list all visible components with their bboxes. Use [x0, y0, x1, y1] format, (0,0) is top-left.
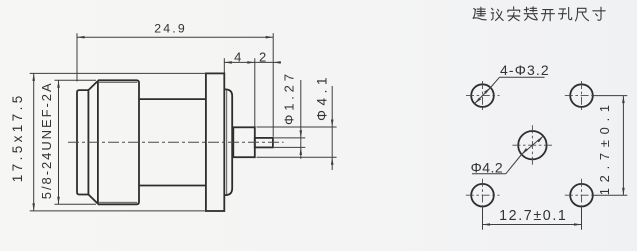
label 4-phi3.2: leader	[475, 77, 545, 103]
thread spec: top extension line	[55, 79, 97, 81]
connector flange	[206, 73, 224, 211]
connector body: ring/cone boundary	[87, 90, 89, 194]
svg-text:Φ4.1: Φ4.1	[314, 73, 329, 121]
crosshair bottom-left hole (extends down as extension line)	[466, 194, 500, 196]
connector body: threaded barrel outline	[98, 80, 139, 204]
dimension 17.5x17.5: bottom arrow	[32, 203, 35, 211]
dimension 24.9: left extension line	[76, 33, 78, 81]
connector body: middle cylinder bottom	[139, 185, 206, 187]
svg-text:12.7±0.1: 12.7±0.1	[597, 99, 612, 195]
svg-text:5/8-24UNEF-2A: 5/8-24UNEF-2A	[39, 81, 54, 199]
dimension phi1.27: lower arrow	[300, 147, 303, 155]
dimension phi1.27: extension top	[274, 137, 305, 139]
crosshair top-left hole	[466, 95, 500, 97]
thread spec: bottom extension line	[55, 203, 97, 205]
svg-text:17.5x17.5: 17.5x17.5	[10, 92, 25, 182]
svg-text:Φ4.2: Φ4.2	[471, 160, 504, 176]
dimension 17.5x17.5: dim line	[33, 73, 35, 211]
seal seam line	[226, 90, 228, 195]
connector body: middle cylinder top	[139, 98, 206, 100]
thread spec: top arrow	[57, 80, 60, 88]
connector body: thread start edge	[97, 80, 99, 204]
dimension 2: right outside arrow	[273, 61, 281, 64]
dimension 4/2 shared extension line	[254, 58, 256, 126]
dimension phi4.1: upper arrow	[331, 120, 334, 128]
title: CJK 建议安装开孔尺寸 drawn as strokes	[473, 7, 605, 21]
dimension phi1.27: upper arrow	[300, 130, 303, 138]
dimension 4: flange extension line	[223, 58, 225, 72]
thread minor dia line top	[99, 81, 137, 83]
dimension 4: line	[224, 61, 255, 63]
dimension phi4.1: extension top	[257, 126, 337, 128]
connector body: front ring	[77, 90, 88, 194]
thread spec: bottom arrow	[57, 197, 60, 205]
dimension 24.9: right extension line	[272, 33, 274, 137]
dimension 4: right arrow	[247, 61, 255, 64]
crosshair bottom-right hole	[565, 194, 594, 196]
crosshair top-right hole (extends right as extension line)	[565, 95, 594, 97]
mounting hole top-left	[471, 84, 494, 107]
svg-text:4-Φ3.2: 4-Φ3.2	[500, 62, 550, 78]
mounting hole bottom-right	[570, 184, 593, 207]
dimension phi4.1: extension bottom	[257, 156, 337, 158]
centerline of connector	[68, 141, 284, 143]
label phi4.2: leader	[472, 136, 543, 174]
char an	[508, 7, 520, 21]
dimension 17.5x17.5: bottom extension line	[30, 210, 206, 212]
char kong	[558, 7, 571, 19]
dimension phi1.27: extension bottom	[274, 146, 305, 148]
dimension 17.5x17.5: top arrow	[32, 73, 35, 81]
dimension phi1.27: dim line	[300, 80, 302, 159]
char yi	[491, 8, 503, 20]
char chi	[576, 8, 589, 21]
svg-text:2: 2	[259, 49, 266, 64]
crosshair center hole	[512, 144, 552, 146]
label phi4.2: arrows	[537, 136, 543, 142]
dimension 12.7 vertical: dim line	[622, 96, 624, 196]
dimension 4: left arrow	[224, 61, 232, 64]
dimension phi4.1: lower arrow	[331, 157, 334, 165]
char zhuang	[524, 7, 537, 20]
svg-text:4: 4	[234, 49, 241, 64]
center pin (1.27 dia)	[255, 138, 273, 148]
svg-text:24.9: 24.9	[154, 22, 187, 36]
char cun	[593, 7, 605, 20]
center hole	[518, 131, 546, 159]
thread minor dia line bottom	[99, 201, 137, 203]
connector body: cone chamfer top	[88, 81, 98, 90]
connector body: cone chamfer bottom	[88, 195, 98, 204]
char kai	[541, 10, 554, 21]
dimension 17.5x17.5: top extension line	[30, 72, 206, 74]
seal ring behind flange	[224, 89, 232, 195]
dimension phi4.1: dim line	[331, 86, 333, 170]
svg-text:12.7±0.1: 12.7±0.1	[499, 208, 567, 224]
label 4-phi3.2: arrows	[475, 98, 482, 104]
dimension 24.9: line	[77, 36, 273, 38]
svg-text:Φ1.27: Φ1.27	[282, 70, 297, 125]
char jian	[473, 7, 486, 20]
dimension 12.7 horizontal: dim line	[483, 224, 582, 226]
dimension 24.9: right arrow	[266, 36, 274, 39]
dimension 2: line with outside tail	[255, 61, 281, 63]
boss (4.1 dia)	[233, 127, 255, 157]
thread spec 5/8-24UNEF-2A: dim line	[58, 80, 60, 204]
mounting hole top-right	[570, 84, 593, 107]
mounting hole bottom-left	[471, 184, 494, 207]
dimension 24.9: left arrow	[77, 36, 85, 39]
